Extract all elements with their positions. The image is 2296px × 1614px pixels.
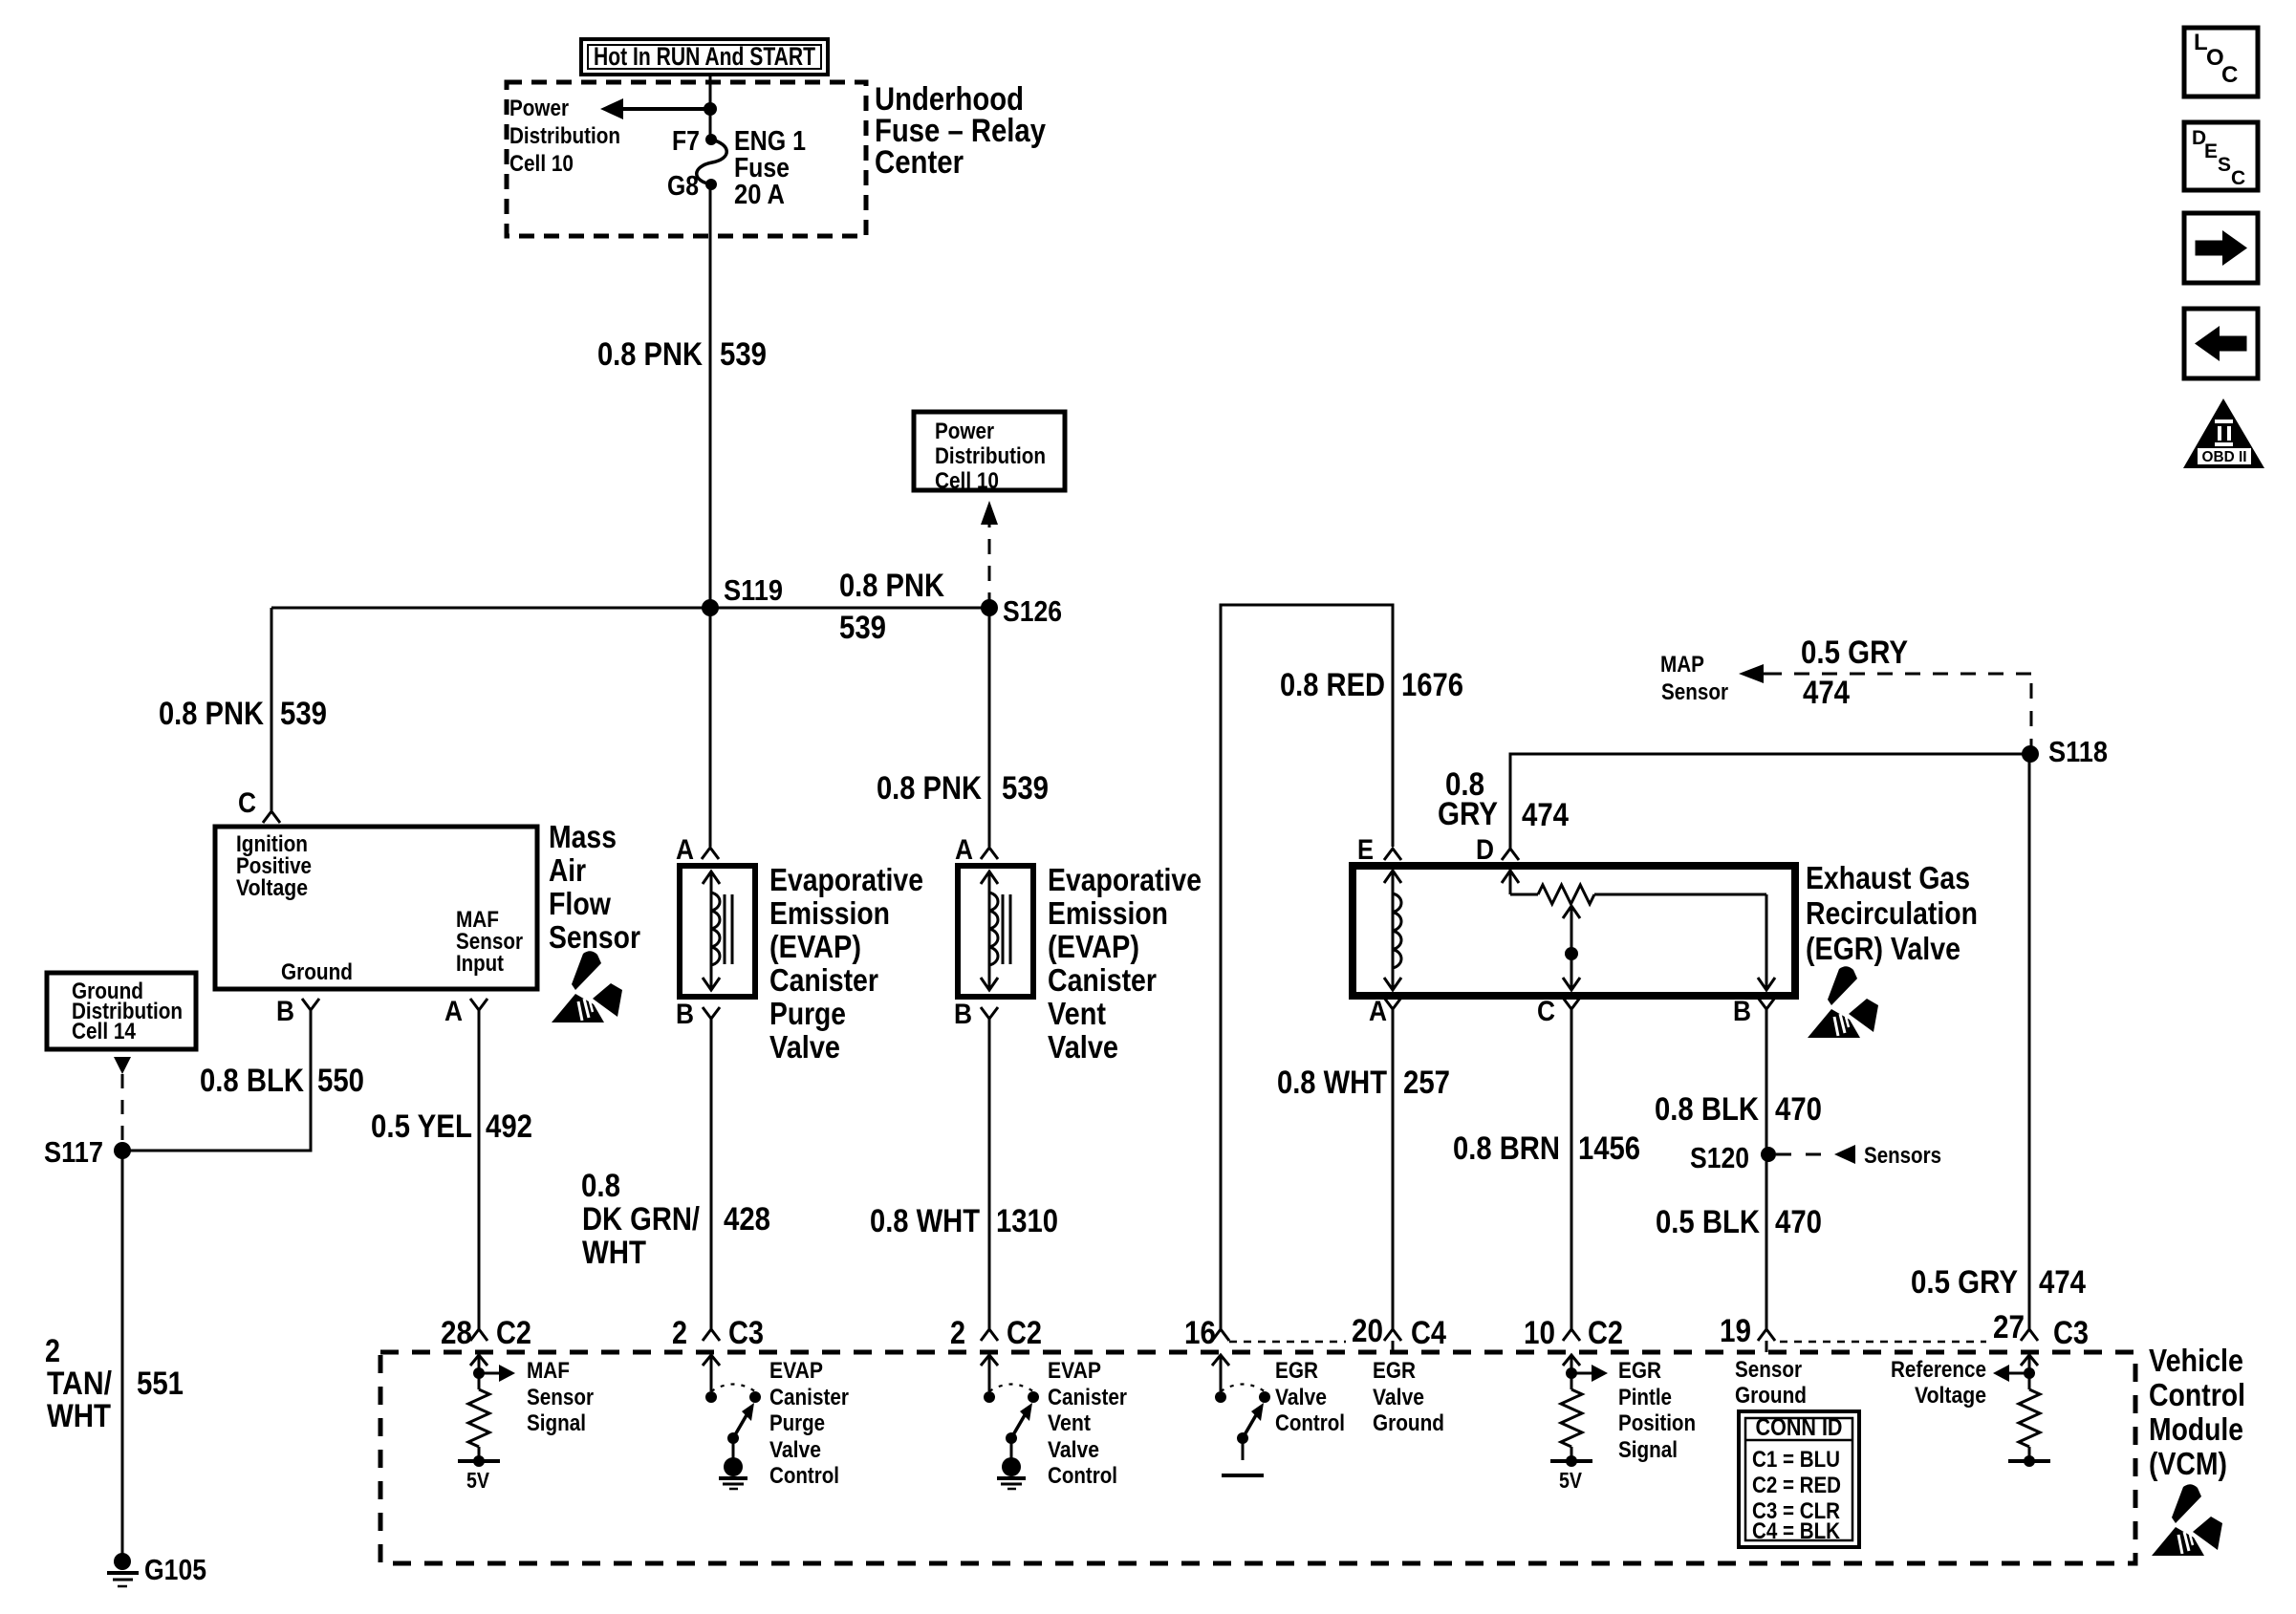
pin 2 C3 (VCM): [672, 1315, 764, 1351]
EGR potentiometer wiper: [1563, 906, 1580, 990]
icon: LOC box: [2184, 28, 2258, 97]
wire 0.5 YEL 492 (MAF A to pin 28): [478, 1010, 481, 1329]
splice S120 with sensors tap: [1690, 1141, 1941, 1174]
label: Reference Voltage: [1891, 1357, 1986, 1409]
label: MAF Sensor Input: [456, 907, 523, 977]
svg-text:GRY: GRY: [1438, 796, 1498, 832]
svg-text:Ground: Ground: [281, 959, 353, 985]
splice S118: [2022, 735, 2108, 768]
svg-text:0.8 BRN: 0.8 BRN: [1453, 1130, 1560, 1167]
driver switch to ground (pin 2 C3): [703, 1355, 761, 1489]
label: Power Distribution Cell 10 (underhood): [509, 96, 620, 177]
svg-text:474: 474: [2039, 1264, 2086, 1301]
svg-text:Vehicle: Vehicle: [2149, 1343, 2243, 1378]
label: Ground (MAF pin B): [281, 959, 353, 985]
svg-text:C1 = BLU: C1 = BLU: [1752, 1447, 1840, 1473]
pin 10 C2 (VCM): [1524, 1315, 1623, 1351]
svg-text:0.8 WHT: 0.8 WHT: [870, 1203, 980, 1239]
wire 0.8 RED 1676 (pin 16 to EGR E): [1221, 605, 1393, 1329]
pin 28 C2 (VCM): [441, 1315, 531, 1351]
wire 0.8 WHT 1310 (vent B to pin 2 C2): [988, 1019, 991, 1329]
svg-text:S126: S126: [1003, 594, 1062, 628]
svg-text:2: 2: [950, 1315, 965, 1351]
wire (dashed) S126 up to power distribution: [981, 501, 998, 608]
wire 0.8 PNK 539 (S119 to purge A): [709, 608, 712, 847]
EGR solenoid coil: [1384, 871, 1401, 990]
svg-text:539: 539: [1002, 770, 1049, 807]
svg-text:Ground: Ground: [1373, 1410, 1444, 1436]
label 0.8 PNK 539 (vent branch): [877, 770, 1049, 807]
svg-text:Exhaust Gas: Exhaust Gas: [1806, 860, 1970, 895]
EGR pintle position potentiometer: [1502, 866, 1775, 990]
svg-text:470: 470: [1775, 1091, 1822, 1128]
svg-text:C2: C2: [496, 1315, 531, 1351]
svg-text:Vent: Vent: [1048, 996, 1106, 1031]
svg-text:Sensors: Sensors: [1864, 1143, 1941, 1169]
svg-text:0.8 WHT: 0.8 WHT: [1277, 1065, 1387, 1101]
svg-text:Sensor: Sensor: [527, 1385, 594, 1410]
ground distribution cell 14 box: [47, 973, 196, 1049]
svg-text:492: 492: [486, 1108, 532, 1145]
svg-text:Sensor: Sensor: [1735, 1357, 1802, 1383]
svg-text:0.8 PNK: 0.8 PNK: [597, 336, 703, 373]
wire 0.8 PNK 539 (branch to MAF C): [271, 608, 273, 810]
svg-text:EVAP: EVAP: [769, 1358, 823, 1384]
svg-text:5V: 5V: [466, 1468, 490, 1493]
svg-text:Control: Control: [1048, 1463, 1117, 1489]
label: Evaporative Emission (EVAP) Canister Purge Valve: [769, 862, 923, 1065]
svg-text:539: 539: [839, 610, 886, 646]
driver switch (pin 16): [1212, 1355, 1270, 1475]
pin 20 C4 (VCM): [1352, 1313, 1446, 1352]
svg-text:Flow: Flow: [549, 886, 611, 921]
svg-text:539: 539: [280, 696, 327, 732]
svg-text:G105: G105: [144, 1553, 206, 1586]
svg-text:EGR: EGR: [1275, 1358, 1318, 1384]
svg-text:B: B: [954, 999, 972, 1030]
svg-text:0.5 GRY: 0.5 GRY: [1911, 1264, 2018, 1301]
svg-text:C: C: [238, 787, 256, 819]
svg-text:2: 2: [672, 1315, 687, 1351]
svg-text:Valve: Valve: [769, 1029, 840, 1065]
svg-text:B: B: [676, 999, 694, 1030]
svg-text:0.8 PNK: 0.8 PNK: [159, 696, 264, 732]
svg-text:474: 474: [1803, 675, 1850, 711]
svg-text:TAN/: TAN/: [47, 1366, 112, 1402]
svg-text:(VCM): (VCM): [2149, 1446, 2227, 1481]
svg-text:Voltage: Voltage: [236, 875, 308, 901]
svg-text:S118: S118: [2048, 735, 2108, 768]
svg-text:Valve: Valve: [1373, 1385, 1424, 1410]
fuse ENG 1 20 A (F7/G8): [667, 126, 806, 210]
wire 0.8 DK GRN/WHT 428 (purge B to pin 2 C3): [710, 1019, 713, 1329]
splice S126: [981, 594, 1062, 628]
svg-text:E: E: [2204, 140, 2218, 162]
terminal B (EVAP vent valve): [954, 999, 998, 1030]
svg-text:G8: G8: [667, 171, 699, 202]
splice S119: [702, 573, 783, 616]
svg-text:OBD II: OBD II: [2202, 449, 2247, 465]
node: power distribution tap with left arrow: [600, 98, 717, 119]
svg-text:Ground: Ground: [1735, 1383, 1807, 1409]
svg-text:Emission: Emission: [769, 895, 890, 931]
svg-text:Vent: Vent: [1048, 1410, 1091, 1436]
icon: arrow left box: [2184, 309, 2258, 378]
svg-text:S117: S117: [44, 1135, 103, 1169]
svg-text:MAP: MAP: [1660, 652, 1704, 678]
svg-text:Valve: Valve: [1048, 1029, 1118, 1065]
terminal C (MAF): [238, 787, 280, 823]
svg-text:C: C: [2231, 167, 2245, 189]
dashed wire 0.5 GRY 474 to MAP sensor: [1660, 635, 2031, 754]
svg-text:Cell 10: Cell 10: [509, 151, 574, 177]
icon: OBD II triangle: [2183, 398, 2264, 468]
svg-text:Evaporative: Evaporative: [1048, 862, 1202, 897]
svg-text:Recirculation: Recirculation: [1806, 895, 1978, 931]
terminal B (MAF): [276, 996, 319, 1027]
label: EGR Valve Ground: [1373, 1358, 1444, 1436]
svg-text:Canister: Canister: [769, 962, 878, 998]
svg-text:Sensor: Sensor: [549, 919, 640, 955]
connector grouping line (pins 19-27): [1780, 1341, 1986, 1344]
wire 0.8 WHT 257 (EGR A to pin 20): [1392, 1009, 1395, 1329]
label 0.5 BLK 470: [1656, 1204, 1822, 1240]
svg-text:Canister: Canister: [1048, 962, 1157, 998]
label 2 TAN/ WHT 551: [45, 1333, 184, 1434]
ESD symbol (VCM): [2152, 1484, 2222, 1556]
terminal A (EVAP purge valve): [676, 834, 719, 866]
svg-text:WHT: WHT: [582, 1235, 646, 1271]
label 0.8 BLK 550: [200, 1063, 364, 1099]
svg-text:Position: Position: [1618, 1410, 1696, 1436]
svg-text:551: 551: [137, 1366, 184, 1402]
resistor to 5V with signal tap (pin 10): [1550, 1355, 1608, 1493]
svg-text:(EVAP): (EVAP): [1048, 929, 1139, 964]
terminal A (EGR): [1369, 996, 1401, 1027]
svg-text:Voltage: Voltage: [1915, 1383, 1986, 1409]
svg-text:EGR: EGR: [1373, 1358, 1416, 1384]
svg-text:C: C: [2221, 62, 2238, 88]
wire 0.8 PNK 539 (S126 to vent A): [988, 608, 991, 847]
label 0.8 WHT 1310: [870, 1203, 1058, 1239]
terminal B (EVAP purge valve): [676, 999, 720, 1030]
svg-text:Valve: Valve: [1048, 1437, 1099, 1463]
pin 19 (VCM): [1720, 1313, 1775, 1352]
svg-text:Air: Air: [549, 852, 586, 888]
connector grouping line (pins 16-20): [1229, 1341, 1346, 1344]
svg-text:20 A: 20 A: [734, 180, 785, 210]
svg-text:Distribution: Distribution: [509, 123, 620, 149]
svg-text:Canister: Canister: [1048, 1385, 1127, 1410]
svg-text:C3: C3: [728, 1315, 764, 1351]
svg-text:(EGR) Valve: (EGR) Valve: [1806, 931, 1960, 966]
svg-text:F7: F7: [672, 126, 700, 157]
EVAP canister purge valve solenoid: [680, 866, 755, 997]
svg-text:Control: Control: [1275, 1410, 1345, 1436]
wire 0.8 PNK 539 (fuse to S119): [709, 184, 712, 608]
underhood fuse-relay center (dashed box): [507, 82, 866, 236]
svg-text:Control: Control: [2149, 1377, 2245, 1412]
svg-text:0.8 BLK: 0.8 BLK: [1655, 1091, 1759, 1128]
label: Evaporative Emission (EVAP) Canister Vent Valve: [1048, 862, 1202, 1065]
pin 2 C2 (VCM): [950, 1315, 1042, 1351]
wire: S119 bus to S126: [271, 607, 989, 610]
label 0.8 WHT 257: [1277, 1065, 1450, 1101]
svg-text:Valve: Valve: [769, 1437, 821, 1463]
label: EVAP Canister Purge Valve Control: [769, 1358, 849, 1489]
svg-text:S119: S119: [724, 573, 783, 607]
svg-text:C2 = RED: C2 = RED: [1752, 1473, 1841, 1498]
ground G105: [107, 1553, 206, 1586]
svg-text:D: D: [1476, 834, 1494, 866]
svg-text:Cell 10: Cell 10: [935, 468, 999, 494]
svg-text:Control: Control: [769, 1463, 839, 1489]
label: Vehicle Control Module (VCM): [2149, 1343, 2245, 1481]
wire 0.5 GRY 474 (S118 to pin 27): [2028, 754, 2031, 1329]
svg-text:28: 28: [441, 1315, 472, 1351]
connector ID table: [1739, 1411, 1859, 1547]
svg-text:1310: 1310: [996, 1203, 1058, 1239]
svg-text:WHT: WHT: [47, 1398, 111, 1434]
svg-text:19: 19: [1720, 1313, 1751, 1349]
label: Exhaust Gas Recirculation (EGR) Valve: [1806, 860, 1978, 966]
terminal A (MAF): [444, 996, 487, 1027]
resistor with reference voltage tap (pin 27): [1993, 1355, 2050, 1467]
wire: feed into fuse F7: [709, 75, 712, 140]
svg-text:474: 474: [1522, 797, 1569, 833]
svg-text:Input: Input: [456, 951, 504, 977]
svg-text:5V: 5V: [1559, 1468, 1583, 1493]
ESD symbol (MAF): [552, 951, 622, 1022]
svg-text:Mass: Mass: [549, 819, 617, 854]
label: Mass Air Flow Sensor: [549, 819, 640, 955]
svg-text:0.8: 0.8: [581, 1168, 620, 1204]
svg-text:B: B: [1733, 996, 1751, 1027]
label 0.8 BLK 470: [1655, 1091, 1822, 1128]
terminal B (EGR): [1733, 996, 1775, 1027]
resistor to 5V with signal tap (pin 28): [458, 1355, 515, 1493]
splice S117: [44, 1135, 131, 1169]
label: EGR Pintle Position Signal: [1618, 1358, 1696, 1463]
svg-text:0.8 BLK: 0.8 BLK: [200, 1063, 304, 1099]
label: EVAP Canister Vent Valve Control: [1048, 1358, 1127, 1489]
svg-text:Signal: Signal: [1618, 1437, 1678, 1463]
svg-text:Signal: Signal: [527, 1410, 586, 1436]
svg-text:Reference: Reference: [1891, 1357, 1986, 1383]
terminal D (EGR): [1476, 834, 1519, 866]
svg-text:0.5 BLK: 0.5 BLK: [1656, 1204, 1760, 1240]
svg-text:0.8 PNK: 0.8 PNK: [877, 770, 982, 807]
svg-text:C: C: [1537, 996, 1555, 1027]
svg-text:A: A: [955, 834, 973, 866]
svg-text:Cell 14: Cell 14: [72, 1019, 137, 1044]
svg-text:Purge: Purge: [769, 1410, 825, 1436]
label 0.8 RED 1676: [1280, 667, 1463, 703]
icon: DESC box: [2184, 122, 2258, 190]
MAF sensor box: [215, 827, 537, 989]
svg-text:EGR: EGR: [1618, 1358, 1661, 1384]
svg-text:C3: C3: [2053, 1315, 2089, 1351]
svg-text:257: 257: [1403, 1065, 1450, 1101]
svg-text:Sensor: Sensor: [1661, 679, 1728, 705]
svg-text:Power: Power: [935, 419, 994, 444]
svg-text:Canister: Canister: [769, 1385, 849, 1410]
svg-text:470: 470: [1775, 1204, 1822, 1240]
wire 0.8 GRY 474 (EGR D to S118): [1510, 754, 2029, 849]
wire 0.8 BLK 550 (MAF B to S117): [122, 1010, 311, 1151]
svg-text:Evaporative: Evaporative: [769, 862, 923, 897]
svg-text:0.5 GRY: 0.5 GRY: [1801, 635, 1908, 671]
svg-text:EVAP: EVAP: [1048, 1358, 1101, 1384]
svg-text:27: 27: [1993, 1309, 2025, 1345]
terminal A (EVAP vent valve): [955, 834, 998, 866]
power distribution cell 10 box (middle): [914, 412, 1065, 494]
label 0.8 PNK 539 (main feed): [597, 336, 767, 373]
svg-text:Emission: Emission: [1048, 895, 1168, 931]
label 0.8 GRY 474: [1438, 766, 1569, 833]
label 0.8 BRN 1456: [1453, 1130, 1640, 1167]
svg-text:E: E: [1357, 834, 1374, 866]
vehicle control module (dashed box): [380, 1352, 2135, 1563]
label 0.8 PNK 539 (MAF branch): [159, 696, 327, 732]
svg-text:Purge: Purge: [769, 996, 846, 1031]
EGR valve box: [1353, 866, 1795, 996]
terminal C (EGR): [1537, 996, 1580, 1027]
label: Underhood Fuse - Relay Center: [875, 81, 1046, 181]
svg-text:Valve: Valve: [1275, 1385, 1327, 1410]
svg-text:1456: 1456: [1578, 1130, 1640, 1167]
svg-text:C2: C2: [1588, 1315, 1623, 1351]
wire 0.8 BRN 1456 (EGR C to pin 10): [1570, 1009, 1573, 1329]
svg-text:C2: C2: [1007, 1315, 1042, 1351]
svg-text:428: 428: [724, 1201, 770, 1237]
svg-text:10: 10: [1524, 1315, 1555, 1351]
svg-text:DK GRN/: DK GRN/: [582, 1201, 700, 1237]
svg-text:S120: S120: [1690, 1141, 1749, 1174]
label 0.5 GRY 474 (pin 27): [1911, 1264, 2086, 1301]
label: EGR Valve Control: [1275, 1358, 1345, 1436]
svg-text:MAF: MAF: [527, 1358, 570, 1384]
svg-text:20: 20: [1352, 1313, 1383, 1349]
svg-text:Hot In RUN And START: Hot In RUN And START: [594, 42, 815, 71]
svg-text:539: 539: [720, 336, 767, 373]
label 0.5 YEL 492: [371, 1108, 532, 1145]
svg-text:0.5 YEL: 0.5 YEL: [371, 1108, 472, 1145]
svg-text:A: A: [444, 996, 463, 1027]
ESD symbol (EGR): [1808, 966, 1878, 1038]
driver switch to ground (pin 2 C2): [981, 1355, 1039, 1489]
svg-text:1676: 1676: [1401, 667, 1463, 703]
wire 2 TAN/WHT 551 (S117 to G105): [121, 1151, 124, 1561]
svg-text:2: 2: [45, 1333, 60, 1369]
wire 0.8 BLK 470 / 0.5 BLK 470 (EGR B to pin 19): [1765, 1009, 1768, 1329]
icon: arrow right box: [2184, 213, 2258, 283]
svg-text:B: B: [276, 996, 294, 1027]
pin 27 C3 (VCM): [1993, 1309, 2089, 1351]
svg-text:A: A: [1369, 996, 1387, 1027]
label 0.8 PNK 539 (S119-S126): [839, 568, 944, 646]
svg-text:Distribution: Distribution: [935, 443, 1046, 469]
svg-text:S: S: [2218, 154, 2231, 176]
svg-text:550: 550: [317, 1063, 364, 1099]
svg-text:C4 = BLK: C4 = BLK: [1752, 1518, 1841, 1544]
svg-text:16: 16: [1184, 1315, 1216, 1351]
power feed box "Hot In RUN And START": [581, 39, 828, 75]
wire (dashed) ground distribution to S117: [114, 1057, 131, 1141]
svg-text:C4: C4: [1411, 1315, 1446, 1351]
svg-text:Power: Power: [509, 96, 569, 121]
label 0.8 DK GRN/ WHT 428: [581, 1168, 770, 1271]
terminal E (EGR): [1357, 834, 1401, 866]
svg-text:(EVAP): (EVAP): [769, 929, 861, 964]
svg-text:0.8 PNK: 0.8 PNK: [839, 568, 944, 604]
pin 16 (VCM): [1184, 1315, 1229, 1351]
svg-text:CONN ID: CONN ID: [1756, 1414, 1843, 1441]
svg-text:A: A: [676, 834, 694, 866]
label: Ignition Positive Voltage: [236, 831, 312, 901]
label: MAF Sensor Signal: [527, 1358, 594, 1436]
svg-text:Pintle: Pintle: [1618, 1385, 1672, 1410]
EVAP canister vent valve solenoid: [958, 866, 1033, 997]
svg-text:0.8 RED: 0.8 RED: [1280, 667, 1385, 703]
label: Sensor Ground: [1735, 1357, 1807, 1409]
svg-text:Module: Module: [2149, 1411, 2243, 1447]
svg-text:Center: Center: [875, 144, 964, 181]
